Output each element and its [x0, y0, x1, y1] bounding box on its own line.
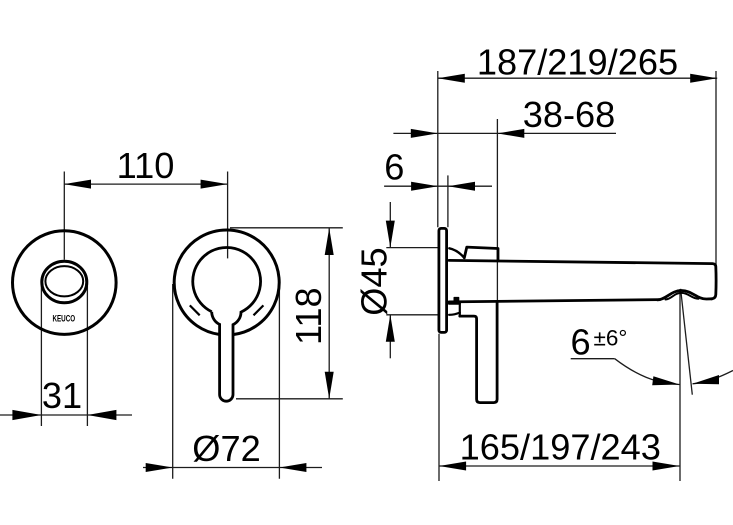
- svg-text:165/197/243: 165/197/243: [460, 426, 661, 467]
- svg-text:31: 31: [42, 375, 82, 416]
- svg-text:Ø72: Ø72: [192, 428, 260, 469]
- svg-text:110: 110: [117, 145, 175, 186]
- svg-text:6: 6: [384, 146, 404, 187]
- svg-text:187/219/265: 187/219/265: [477, 42, 678, 83]
- svg-text:±6°: ±6°: [594, 325, 628, 350]
- svg-text:38-68: 38-68: [523, 94, 616, 135]
- svg-text:118: 118: [288, 287, 329, 345]
- svg-text:6: 6: [571, 322, 591, 363]
- svg-text:Ø45: Ø45: [353, 247, 394, 315]
- svg-text:KEUCO: KEUCO: [52, 313, 75, 323]
